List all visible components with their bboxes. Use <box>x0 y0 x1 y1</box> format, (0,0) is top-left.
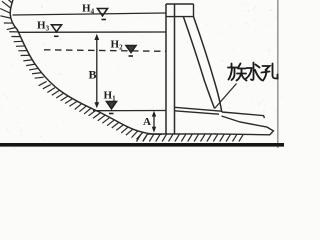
apron top edge <box>222 112 265 118</box>
bank slope curve <box>10 0 162 134</box>
tower left wall <box>165 4 167 134</box>
water line H4 <box>13 13 167 15</box>
dashed water line H2 <box>44 50 166 52</box>
water symbol H1 <box>107 102 117 114</box>
conduit lower line <box>175 111 220 114</box>
bottom border line <box>0 143 284 147</box>
apron outline <box>215 116 273 135</box>
svg-text:B: B <box>89 68 97 82</box>
conduit upper line <box>175 107 222 111</box>
ground hatching <box>137 134 244 141</box>
dimension B line <box>94 34 99 109</box>
bank slope hatching <box>0 0 148 141</box>
svg-text:A: A <box>143 116 151 128</box>
water line H1 <box>93 110 166 112</box>
scan speckle noise <box>1 0 283 149</box>
dam face inner slant <box>184 17 215 109</box>
leader line for drain hole label <box>215 84 237 109</box>
char 水 <box>251 63 254 81</box>
right border line <box>277 0 279 148</box>
water symbol H2 <box>126 46 136 57</box>
ground line <box>148 133 216 135</box>
char 孔 <box>263 66 270 70</box>
water symbol H3 <box>52 25 62 37</box>
tower cap <box>166 4 194 17</box>
dimension A line <box>152 111 156 133</box>
dam face outer slant <box>194 17 222 112</box>
label 族水孔 (drawn strokes) <box>228 63 278 81</box>
tower right wall <box>174 4 176 134</box>
water line H3 <box>18 31 166 33</box>
water symbol H4 <box>98 9 108 20</box>
char 族 <box>231 64 233 67</box>
